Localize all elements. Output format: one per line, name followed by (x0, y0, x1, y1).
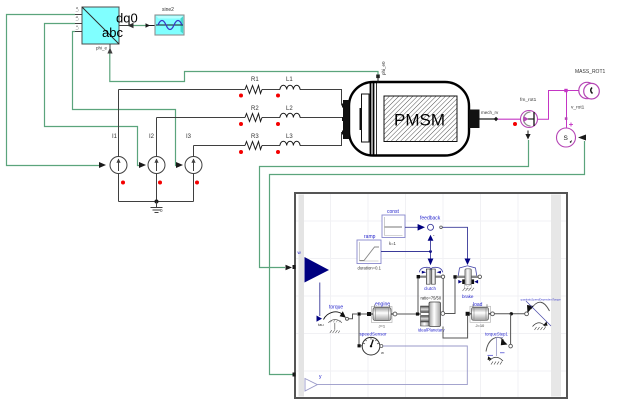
svg-text:J=1: J=1 (379, 323, 386, 328)
svg-text:R3: R3 (251, 134, 259, 140)
output connector y (305, 374, 322, 391)
pin phi_e0 (377, 76, 379, 83)
wire phase 2 (157, 117, 345, 119)
svg-text:J=10: J=10 (476, 323, 486, 328)
arrow into I3 control (176, 162, 183, 168)
input connector w (298, 250, 330, 283)
stator hatched box (384, 96, 457, 142)
wire sine2 to dq0 (120, 23, 156, 28)
wire i_b (dq0 pin b to I2 control) (45, 24, 141, 166)
resistor R3 (239, 134, 262, 154)
svg-text:abc: abc (102, 25, 123, 40)
svg-text:i_a: i_a (75, 7, 79, 12)
current source I3 (185, 134, 202, 202)
wire load to quadratic torque (494, 313, 524, 315)
block const (382, 209, 405, 246)
wire i_c (dq0 pin c to I3 control) (73, 32, 179, 166)
svg-text:torqueStep1: torqueStep1 (485, 332, 508, 337)
svg-text:S: S (564, 135, 569, 142)
wire node down to speedSensor (358, 316, 360, 345)
svg-text:w: w (381, 350, 384, 355)
ground (151, 202, 163, 213)
svg-text:const: const (387, 209, 400, 215)
svg-text:torque: torque (329, 305, 343, 311)
current source I2 (148, 118, 165, 207)
wire mech (shaft to fm_rot1) (494, 117, 521, 126)
wire feedback to brake (442, 227, 470, 265)
wire i_a (dq0 pin a to I1 control) (7, 15, 100, 166)
svg-text:i_b: i_b (75, 16, 79, 21)
sensor fm_rot1 (520, 97, 538, 128)
resistor R2 (239, 106, 262, 126)
source torque (317, 305, 349, 334)
svg-text:feedback: feedback (420, 216, 441, 222)
motor PMSM (342, 61, 499, 156)
inductor L1 (276, 77, 300, 98)
wire ramp-junction to clutch (428, 252, 434, 266)
svg-text:I2: I2 (149, 134, 155, 140)
wire torque to shaft node (349, 314, 357, 319)
svg-text:L2: L2 (286, 106, 293, 112)
brake (453, 266, 481, 299)
svg-text:tau: tau (318, 322, 324, 327)
arrow into I2 control (139, 162, 146, 168)
source quadraticSpeedDependentTorque (521, 297, 562, 330)
arrow into phi_e pin (107, 48, 112, 54)
node (torque/engine/sensor) (358, 312, 361, 315)
svg-text:quadraticSpeedDependentTorque: quadraticSpeedDependentTorque (521, 297, 562, 301)
inductor L3 (276, 134, 300, 154)
node on rotational net (564, 89, 567, 92)
svg-text:mech_rv: mech_rv (481, 110, 499, 115)
small plus marker (569, 123, 573, 127)
wire fm_rot1 to MASS_ROT1 (538, 91, 582, 129)
svg-text:duration=0.1: duration=0.1 (358, 265, 382, 270)
wire engine to planetary (397, 313, 416, 315)
svg-text:I3: I3 (186, 134, 192, 140)
comparator feedback (420, 216, 442, 239)
svg-text:PMSM: PMSM (394, 111, 445, 130)
bottom rail wire (119, 201, 194, 203)
svg-text:idealPlanetary: idealPlanetary (418, 328, 445, 333)
svg-text:load: load (473, 302, 483, 308)
sensor speedSensor (360, 332, 388, 356)
svg-text:L1: L1 (286, 77, 293, 83)
svg-text:I1: I1 (112, 134, 118, 140)
svg-text:phi_e0: phi_e0 (381, 61, 386, 75)
inertia load (466, 302, 495, 328)
block ramp (357, 234, 382, 270)
wire speedSensor to output y (318, 346, 468, 385)
svg-text:k=1: k=1 (389, 241, 397, 246)
wire phase 3 (194, 133, 345, 146)
wire const to feedback (405, 224, 425, 231)
svg-text:speedSensor: speedSensor (360, 332, 388, 337)
inductor L2 (276, 106, 300, 126)
wire y-signal (panel output y to v_rot1) (270, 135, 587, 375)
resistor R1 (239, 77, 262, 98)
svg-text:dq0: dq0 (116, 11, 138, 26)
wire phi_e (PMSM angle to dq0 block) (110, 53, 378, 82)
svg-text:MASS_ROT1: MASS_ROT1 (575, 69, 606, 75)
wire w to torque (319, 283, 321, 317)
svg-text:engine: engine (375, 302, 390, 308)
wire ramp to feedback/clutch junction (381, 235, 433, 253)
submodel panel frame (293, 193, 568, 398)
node junction at ground (155, 200, 159, 204)
source v_rot1 (557, 105, 585, 148)
svg-text:v_rot1: v_rot1 (571, 105, 585, 111)
arrow into I1 control (99, 162, 106, 168)
svg-text:R1: R1 (251, 77, 259, 83)
wire clutch left down to node (417, 278, 419, 313)
inertia engine (367, 302, 397, 329)
svg-text:brake: brake (462, 294, 474, 299)
wire clutch right down to planetary right (442, 278, 444, 311)
svg-text:L3: L3 (286, 134, 293, 140)
source block sine2 (155, 7, 184, 35)
svg-text:clutch: clutch (424, 286, 436, 291)
clutch (417, 267, 445, 291)
node planetary left (416, 312, 419, 315)
svg-text:i_c: i_c (75, 25, 79, 30)
svg-text:ramp: ramp (364, 234, 376, 240)
transformation block dq0/abc (75, 7, 138, 51)
svg-text:phi_e: phi_e (96, 46, 108, 51)
wire planetary ring up via brake path (445, 279, 455, 314)
wire phase 1 (119, 90, 345, 106)
svg-text:R2: R2 (251, 106, 259, 112)
inertia MASS_ROT1 (575, 69, 606, 99)
gear idealPlanetary (418, 296, 445, 333)
wire w-signal (fm_rot1 to panel input w) (260, 131, 531, 271)
wire node down to torqueStep1 (510, 314, 512, 344)
svg-text:sine2: sine2 (162, 7, 174, 13)
svg-text:fm_rot1: fm_rot1 (520, 97, 537, 103)
svg-text:ratio=75/50: ratio=75/50 (421, 296, 442, 301)
node load/torqueStep (510, 312, 513, 315)
svg-text:-: - (433, 232, 435, 238)
grid (296, 194, 566, 397)
source torqueStep1 (485, 332, 512, 365)
wire planetary carrier to load (443, 316, 468, 338)
current source I1 (110, 90, 127, 202)
shaft mech_rv (469, 110, 480, 129)
wire node to engine (361, 313, 367, 315)
